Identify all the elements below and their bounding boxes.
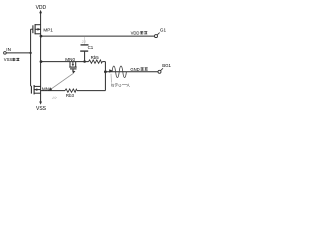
svg-text:VSS: VSS	[4, 57, 13, 62]
svg-text:BG1: BG1	[162, 63, 171, 68]
svg-text:G1: G1	[160, 28, 167, 33]
VSS supply arrow	[39, 102, 42, 105]
svg-text:MP1: MP1	[43, 27, 53, 32]
svg-text:22: 22	[82, 39, 87, 44]
wire Rb5 to right corner	[102, 61, 105, 63]
transistor MP1 (PMOS)	[33, 24, 41, 34]
wire BG node to BG1	[105, 71, 158, 73]
label GND potential (GND電位)	[130, 67, 147, 72]
wire IN to gate net	[6, 52, 30, 54]
wire main vertical rail VDD to VSS	[40, 13, 42, 103]
terminal IN	[4, 52, 7, 55]
label VSS potential (VSS電位)	[4, 57, 20, 62]
transistor MN0 (MOS capacitor, drawn hanging)	[69, 62, 76, 69]
MN0 gate stub	[72, 69, 74, 72]
svg-text:MN0: MN0	[65, 57, 75, 62]
svg-text:VDD: VDD	[131, 31, 140, 36]
MP1 gate lead	[31, 28, 33, 30]
svg-text:Rb3: Rb3	[66, 93, 75, 98]
svg-text:IN: IN	[6, 47, 11, 52]
junction C1 / MN0 wire	[83, 60, 86, 63]
junction rail / MN0 wire	[40, 60, 43, 63]
wire diagonal MN1 drain to MN0 gate	[51, 74, 74, 90]
svg-text:Rb5: Rb5	[91, 55, 100, 60]
svg-text:VSS: VSS	[36, 106, 47, 112]
junction output node at MP1 drain	[40, 35, 43, 38]
svg-text:C1: C1	[88, 45, 94, 50]
terminal G1	[155, 35, 158, 38]
wire right vertical	[104, 62, 106, 91]
signal direction arrowhead	[109, 69, 113, 73]
junction diagonal / Rb3 wire	[49, 88, 52, 91]
wire MN0 node horizontal	[41, 61, 89, 63]
terminal BG1	[158, 70, 161, 73]
svg-text:VDD: VDD	[36, 5, 47, 11]
signal waveform (sine)	[112, 66, 126, 78]
junction BG net	[104, 70, 107, 73]
transistor MN1 (NMOS)	[31, 85, 41, 94]
label signal input (信号の入力) with leader	[110, 74, 112, 83]
junction IN/gate	[29, 52, 31, 54]
resistor Rb3	[65, 89, 77, 92]
capacitor C1	[80, 37, 88, 62]
wire output to G1	[41, 35, 155, 37]
wire Rb3 node horizontal	[41, 90, 65, 92]
wire gate net vertical (IN to MP1/MN1 gates)	[30, 29, 32, 86]
label VDD potential (VDD電位)	[131, 31, 148, 36]
VDD supply arrow	[39, 10, 42, 13]
arrowhead at MN0 gate	[72, 71, 75, 74]
svg-text:GND: GND	[130, 67, 139, 72]
wire Rb3 to right corner	[77, 90, 105, 92]
faint hatch marks	[52, 97, 57, 99]
